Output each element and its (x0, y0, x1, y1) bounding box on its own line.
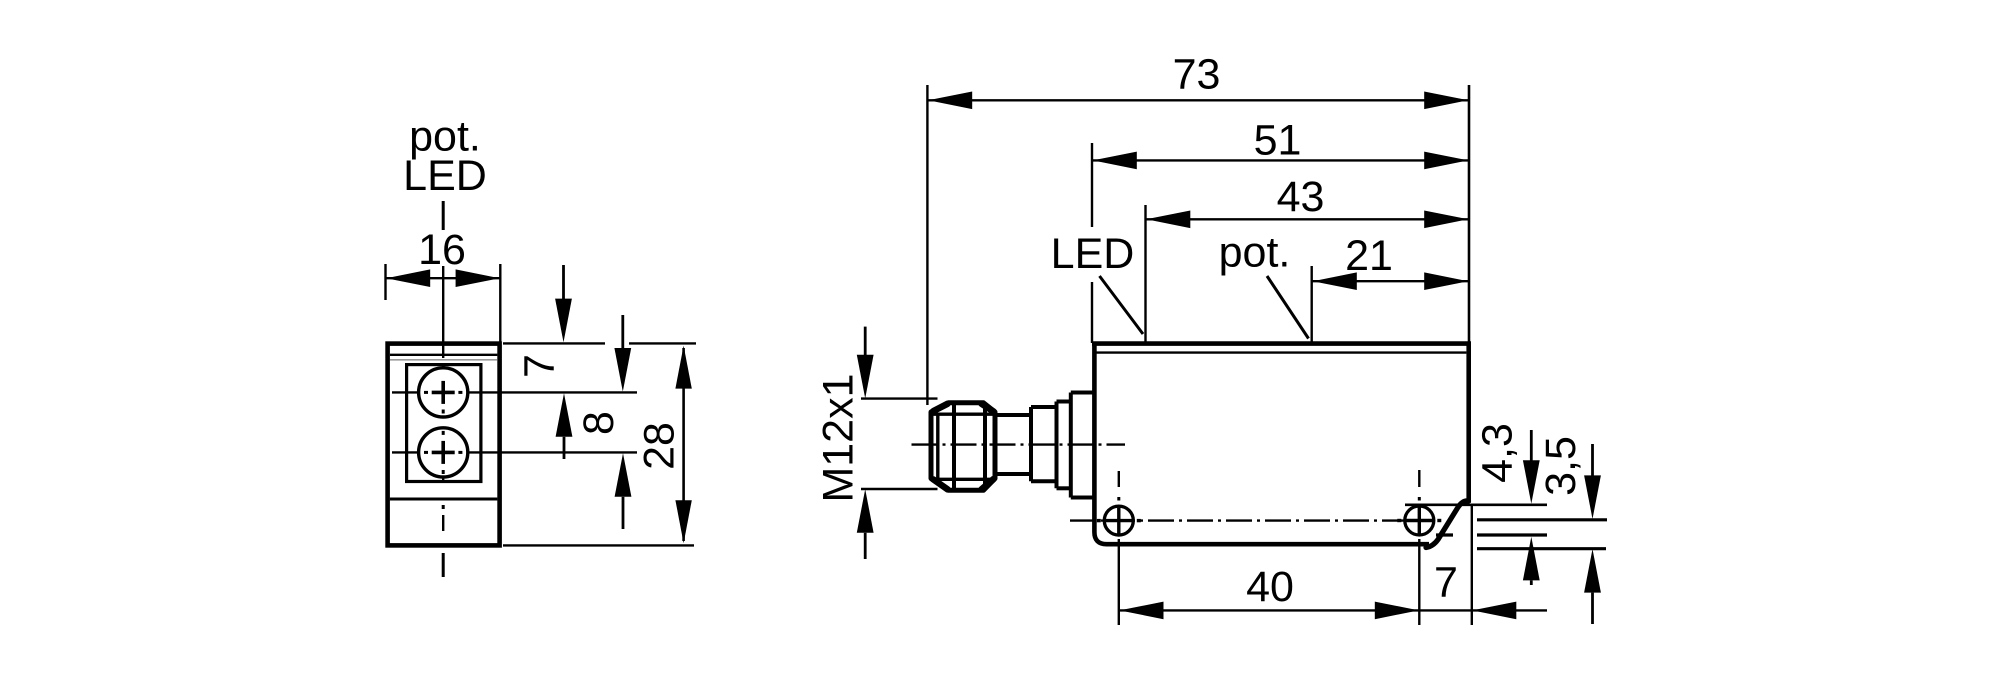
dimension line 16 (386, 277, 501, 279)
separator line above bottom band (front view) (390, 498, 498, 501)
dimension line 73 (927, 92, 1469, 110)
svg-text:M12x1: M12x1 (814, 373, 862, 502)
face inset line (front view) (390, 354, 497, 356)
dimension 3,5 arrows (1584, 444, 1601, 624)
M12 nut chamfer accents (934, 404, 994, 490)
connector cylinder (995, 415, 1031, 474)
svg-text:3,5: 3,5 (1537, 436, 1585, 496)
svg-text:LED: LED (403, 152, 487, 200)
arrow left of 16 dim (386, 269, 430, 287)
lens circle lower (419, 428, 468, 477)
leader dash below LED label (442, 201, 445, 230)
mounting hole right (1405, 506, 1434, 535)
connector step 1 (1031, 407, 1057, 481)
dimension 7 (front view) (515, 265, 572, 459)
extension line right (body right edge extended) (1468, 85, 1471, 343)
svg-text:28: 28 (636, 422, 684, 470)
body left edge and bottom edge with rounded corner (side view) (1094, 343, 1429, 544)
body top edge extension lines (front view right) (503, 342, 605, 344)
face inset line (side view) (1097, 351, 1467, 353)
slot line A (tangent top of hole) (1405, 503, 1547, 506)
M12 nut facet lines (931, 404, 995, 490)
svg-text:8: 8 (575, 411, 623, 435)
extension line left of 51 dim (broken around LED label) (1091, 143, 1093, 343)
M12 reference line bottom (861, 488, 938, 490)
dimension 4,3 arrows (1523, 430, 1540, 585)
slot break slanted cut (1426, 501, 1469, 548)
horizontal centerline upper lens (392, 391, 637, 393)
svg-text:7: 7 (1434, 559, 1458, 607)
svg-text:pot.: pot. (1219, 229, 1291, 277)
leader line from LED label (1100, 276, 1144, 334)
svg-text:73: 73 (1173, 50, 1221, 98)
crosshair lower lens (432, 441, 455, 464)
dimension line 40 and 7 (1119, 602, 1547, 620)
arrow right of 16 dim (456, 269, 500, 287)
dimension 8 (front view) (575, 315, 632, 529)
vertical centerline (front view) (442, 266, 444, 577)
horizontal centerline through mounting holes (1070, 519, 1433, 521)
svg-text:4,3: 4,3 (1473, 423, 1521, 483)
dimension 28 (front view) (636, 346, 692, 544)
M12 connector nut outline (931, 403, 995, 491)
lens circle upper (419, 368, 468, 417)
leader line from pot. label (1267, 276, 1309, 339)
dimension line 21 (1312, 272, 1469, 290)
svg-text:LED: LED (1051, 230, 1135, 278)
svg-text:51: 51 (1254, 116, 1302, 164)
face inset line light (front view) (390, 359, 497, 361)
body right edge (side view) (1466, 343, 1471, 503)
svg-text:7: 7 (515, 354, 563, 378)
M12 reference line top (861, 397, 938, 399)
horizontal centerline lower lens (392, 451, 637, 453)
M12 arrow bottom (857, 489, 874, 559)
svg-text:40: 40 (1246, 563, 1294, 611)
extension line body right edge down (7 dim) (1471, 505, 1473, 625)
extension line right of 16 dim (499, 264, 501, 343)
extension line left of 43 dim (1144, 205, 1146, 343)
extension line left of 16 dim (384, 264, 386, 300)
connector axis centerline (912, 443, 1126, 445)
body bottom edge extension line (front view right) (503, 544, 694, 546)
crosshair mounting hole right (1397, 508, 1441, 534)
slot line B (1477, 518, 1607, 521)
sensor body outline (front view) (388, 344, 500, 546)
mounting hole left (1104, 506, 1133, 535)
extension line left of 21 dim (pot position) (1310, 266, 1312, 343)
svg-text:21: 21 (1345, 232, 1393, 280)
M12 arrow top (857, 327, 874, 399)
slot line C (1436, 533, 1547, 536)
mounting hole left vertical centerline (1118, 471, 1120, 625)
svg-text:43: 43 (1277, 173, 1325, 221)
mounting hole right vertical centerline (1418, 470, 1420, 625)
crosshair mounting hole left (1097, 508, 1141, 534)
connector step 3 (flange) (1071, 393, 1094, 498)
dimension line 43 (1146, 211, 1470, 229)
body top edge (side view) (1092, 341, 1471, 346)
extension line left of 73 dim (connector tip) (926, 85, 928, 405)
lens window rect (front view) (407, 365, 481, 482)
connector step 2 (1057, 402, 1071, 489)
dimension line 51 (1092, 152, 1469, 170)
crosshair upper lens (432, 381, 455, 404)
slot line D (1477, 547, 1606, 550)
